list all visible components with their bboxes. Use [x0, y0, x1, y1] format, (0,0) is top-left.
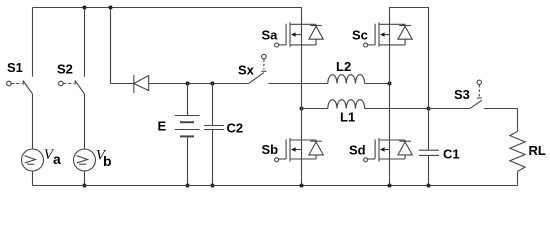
switch S3 [429, 80, 482, 109]
svg-text:C1: C1 [443, 147, 460, 162]
wire diode branch vertical [110, 8, 112, 84]
mosfet Sd [364, 138, 413, 162]
wire L2 to right leg [365, 83, 390, 85]
wire RL bottom [517, 171, 519, 185]
svg-text:S2: S2 [57, 62, 73, 77]
node L1 left junction [300, 107, 304, 111]
node C2 bottom junction [211, 184, 215, 188]
wire bottom rail [33, 185, 518, 187]
wire C2 branch lower [212, 130, 214, 186]
wire L1 right [365, 108, 429, 110]
wire E branch lower [187, 137, 189, 185]
wire left leg [301, 8, 303, 186]
svg-text:L1: L1 [340, 109, 355, 124]
node Vb bottom junction [83, 184, 87, 188]
wire Sx to L2 [269, 83, 328, 85]
wire diode left [111, 83, 134, 85]
source Va [22, 149, 44, 171]
node Sb bottom junction [300, 184, 304, 188]
svg-text:Sd: Sd [349, 142, 366, 157]
wire right leg [389, 8, 391, 186]
mosfet Sa [275, 22, 324, 47]
wire E branch upper [187, 84, 189, 116]
svg-text:a: a [53, 151, 61, 167]
svg-text:L2: L2 [336, 59, 351, 74]
node C2 top junction [211, 82, 215, 86]
svg-text:Sa: Sa [262, 28, 279, 43]
source Vb [74, 149, 96, 171]
capacitor C1 [419, 150, 439, 155]
wire top rail right bridge [389, 7, 429, 9]
node C1 bottom junction [427, 184, 431, 188]
inductor L2 [328, 75, 365, 84]
wire S1 upper [32, 8, 34, 77]
node E bottom junction [186, 184, 190, 188]
wire RL top [517, 109, 519, 132]
mosfet Sb [275, 138, 324, 162]
wire top rail left [33, 7, 303, 9]
node top diode junction [109, 6, 113, 10]
wire S2 lower [84, 94, 86, 149]
resistor RL [510, 131, 525, 171]
wire S3 right [484, 108, 518, 110]
node output junction [427, 107, 431, 111]
diode D1 [134, 75, 149, 93]
wire L1 left [302, 108, 328, 110]
wire Va bottom [32, 171, 34, 186]
switch Sx [249, 54, 266, 83]
svg-text:S1: S1 [7, 60, 23, 75]
svg-text:S3: S3 [454, 87, 470, 102]
wire S2 upper [84, 8, 86, 77]
wire S1 lower [32, 94, 34, 149]
svg-text:Sx: Sx [238, 63, 255, 78]
battery E [175, 116, 200, 137]
inductor L1 [328, 100, 365, 109]
wire diode to Sx [149, 83, 249, 85]
node Sd bottom junction [388, 184, 392, 188]
svg-text:Sc: Sc [352, 28, 368, 43]
svg-text:b: b [103, 153, 112, 169]
switch S2 [59, 80, 85, 93]
svg-text:E: E [158, 118, 167, 133]
svg-text:RL: RL [529, 143, 546, 158]
wire C1 lower [428, 155, 430, 185]
wire Vb bottom [84, 171, 86, 186]
node top S2 junction [83, 6, 87, 10]
capacitor C2 [204, 126, 224, 130]
switch S1 [7, 80, 33, 93]
node E top junction [186, 82, 190, 86]
wire C2 branch upper [212, 84, 214, 126]
node L2 right junction [388, 82, 392, 86]
mosfet Sc [364, 22, 413, 47]
svg-text:Sb: Sb [262, 142, 279, 157]
wire output branch [428, 8, 430, 151]
svg-text:C2: C2 [227, 120, 244, 135]
